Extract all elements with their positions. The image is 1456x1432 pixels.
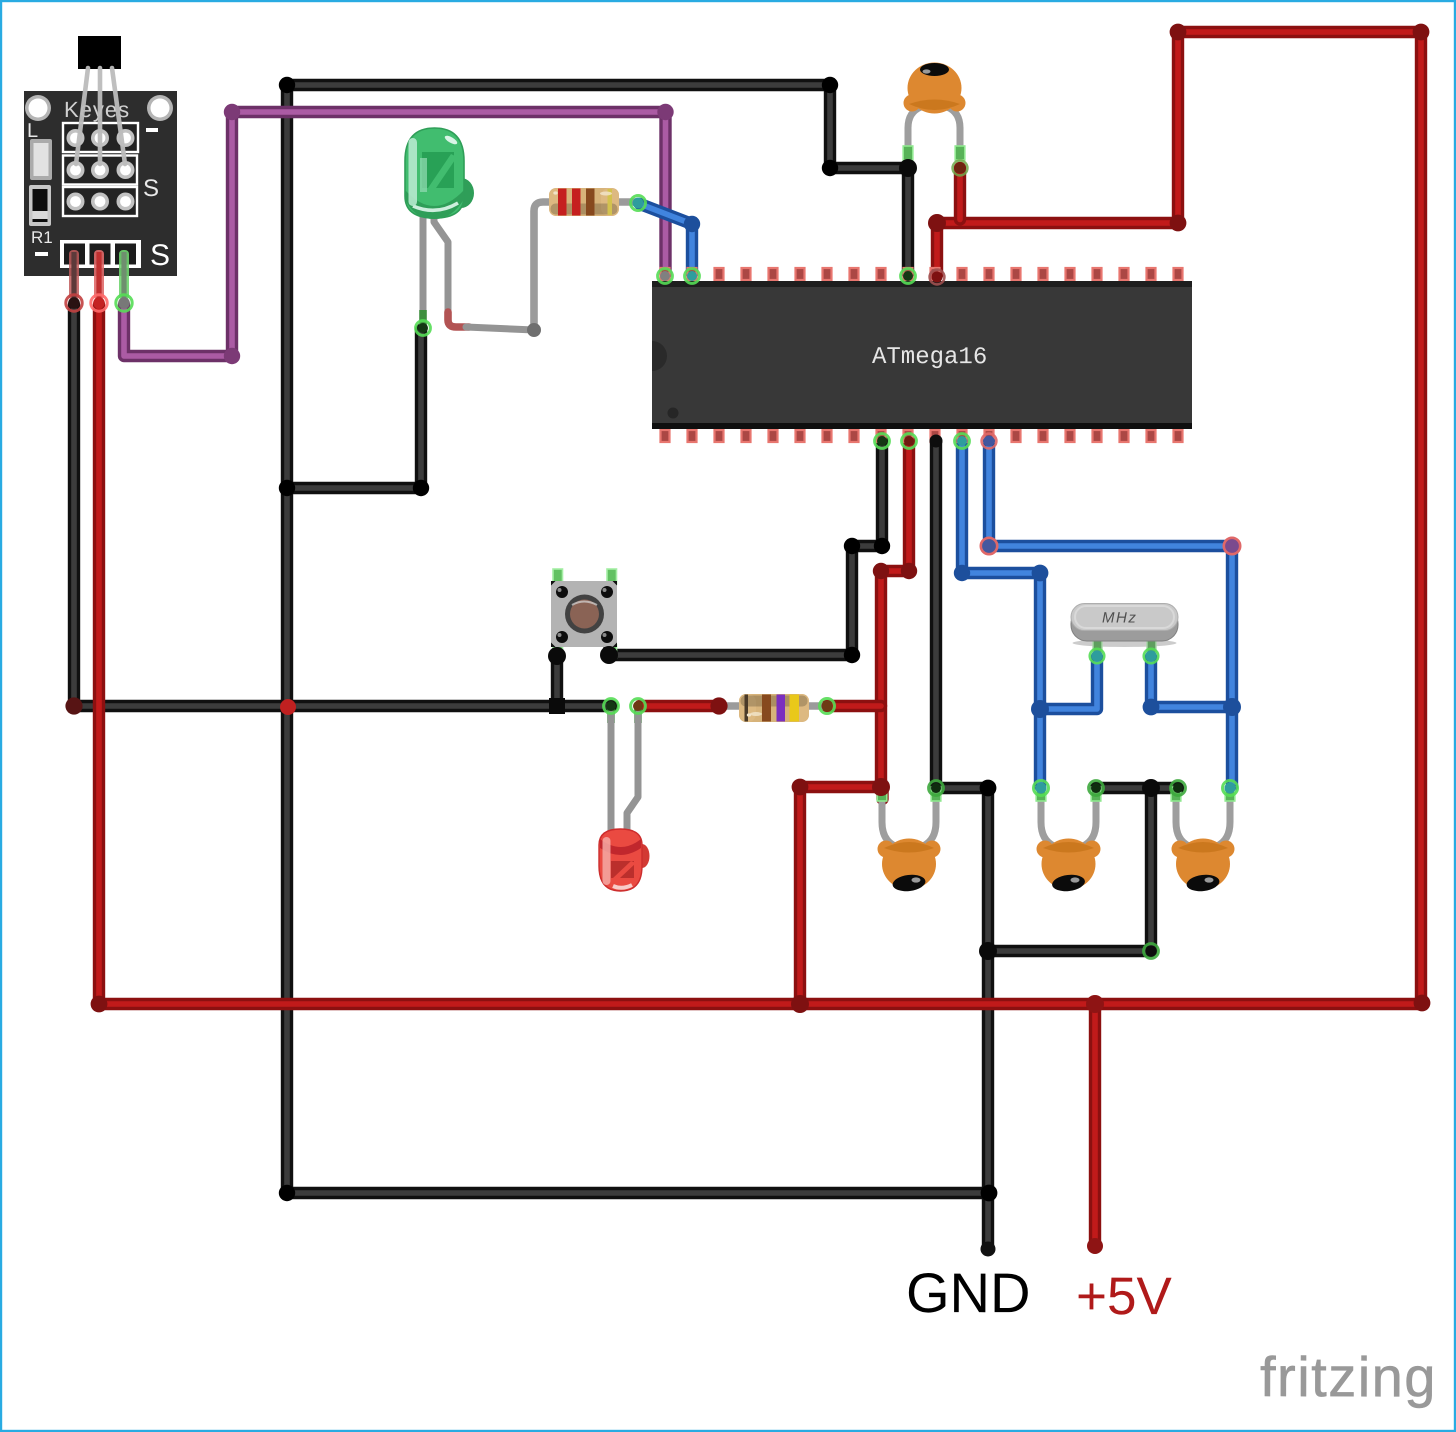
blue junction (1232,707) (1223, 698, 1241, 716)
connector red LED anode (631, 699, 646, 714)
button bottom pins (553, 645, 563, 658)
black endpoint button left pin (548, 647, 566, 665)
connector keyes minus pin (66, 295, 82, 311)
capacitor C2 legs (882, 798, 936, 846)
wire black IC(GND pin) jog to push button (609, 441, 882, 655)
blue bendpoint (692,224) (684, 216, 700, 232)
blue junction (1040,709) (1031, 700, 1049, 718)
red LED D2 legs (607, 709, 642, 833)
wire black bridge down-around to vertical (988, 788, 1151, 951)
wire red resistor R2 right segment (827, 700, 881, 712)
black bendpoint (852,546) (844, 538, 860, 554)
black bendpoint (421,488) (413, 480, 429, 496)
connector green LED cathode (416, 321, 431, 336)
header row 2 (63, 156, 137, 185)
capacitor C4 body (1172, 839, 1235, 893)
IC body (652, 281, 1192, 429)
IC pin stubs top (661, 268, 1183, 280)
capacitor C4 legs (1176, 798, 1230, 846)
KEYES-MODULE (24, 36, 177, 300)
WIRES-LAYER (74, 32, 1422, 1249)
wire red +5V top loop (937, 32, 1421, 1002)
label minus left (35, 252, 48, 256)
black bendpoint (287,488) (279, 480, 295, 496)
black junction top cap left leg (899, 159, 917, 177)
keyes PCB board (24, 91, 177, 276)
resistor R1 220ohm bent lead (534, 202, 636, 330)
black bendpoint (830,85) (822, 77, 838, 93)
capacitor C1 lead sleeves (903, 146, 965, 160)
connector cap C4 left leg black (1171, 781, 1186, 796)
module pin leg S (signal) (119, 250, 129, 300)
blue bendpoint (1232,546) (1224, 538, 1240, 554)
header row 1 (63, 123, 138, 152)
dark red bendpoint keyes gnd corner (65, 697, 82, 714)
svg-text:S: S (143, 175, 159, 202)
wire red +5V bottom bus (98, 998, 1422, 1010)
connector IC bottom blue pin (955, 434, 970, 449)
gray junction LED-resistor leads (527, 323, 541, 337)
black junction (988,951) (979, 942, 997, 960)
wire blue XTAL1 net (962, 441, 1040, 786)
svg-text:ATmega16: ATmega16 (872, 344, 987, 371)
red junction (937,223) (928, 214, 946, 232)
purple bendpoint (232,356) (224, 348, 240, 364)
wire black from top cap junction down to IC pin (902, 168, 914, 274)
IR receiver U-IR black head (78, 36, 121, 69)
connector cap C2 right leg black (929, 781, 944, 796)
red bendpoint (909,571) (901, 563, 917, 579)
wire black rung green LED cathode (287, 330, 421, 488)
blue bendpoint (1040,573) (1032, 565, 1049, 582)
red junction resistor R2 left (710, 697, 727, 714)
green LED D1 legs (419, 208, 534, 330)
red crossing dot on gnd rail (280, 699, 296, 715)
capacitor C3 legs (1041, 798, 1096, 846)
svg-text:MHz: MHz (1102, 610, 1137, 627)
red bendpoint (99,1004) (91, 996, 108, 1013)
purple bendpoint (669,112) (657, 104, 673, 120)
blue bendpoint (1151,707) (1143, 699, 1160, 716)
connector resistor R1 right to blue (631, 196, 646, 211)
green LED anode red elbow (448, 312, 469, 327)
connector keyes plus pin (91, 295, 107, 311)
wire black IC pin to bottom cap1 right leg (930, 441, 942, 786)
wire red +5V terminal stub (1089, 1004, 1101, 1246)
svg-text:R1: R1 (31, 228, 53, 247)
svg-text:L: L (27, 120, 38, 142)
connector crystal right pin (1144, 649, 1158, 663)
red endpoint +5V terminal (1087, 1238, 1103, 1254)
blue bendpoint (962,573) (954, 565, 970, 581)
red bendpoint (881,571) (873, 563, 889, 579)
wire black top rail (GND) from left vertical to top capacitor (287, 85, 905, 168)
green LED D1 bulb (405, 128, 474, 219)
resistor R2 470ohm leads (724, 702, 824, 710)
connector IC pin top red (930, 270, 945, 285)
red LED D2 bulb (599, 829, 650, 891)
wire red elbow to bottom cap1 left leg (881, 787, 883, 799)
black junction button pin to rail (549, 698, 565, 714)
button body (551, 581, 617, 647)
connector IC bottom black pin (875, 434, 890, 449)
svg-text:+5V: +5V (1076, 1267, 1173, 1326)
capacitor C1 body (904, 63, 966, 114)
button corner contacts (556, 586, 568, 598)
black bendpoint (882,546) (874, 538, 890, 554)
black endpoint GND terminal (981, 1242, 996, 1257)
capacitor C3 body (1037, 839, 1101, 893)
capacitor C1 22pF top legs (908, 107, 960, 152)
module pin leg middle (+ red wire) (94, 250, 104, 300)
capacitor C2 lead sleeves (877, 787, 941, 801)
button top pins (553, 569, 563, 584)
connector black bend (1151,951) (1144, 944, 1159, 959)
connector IC pin2 blue (685, 269, 700, 284)
button plunger (565, 595, 604, 634)
connector cap C3 left leg blue end (1034, 781, 1049, 796)
mounting hole right (147, 95, 173, 121)
label minus right (146, 128, 158, 132)
IR receiver legs (76, 68, 125, 164)
wire blue XTAL1 branch to crystal left pin (1040, 657, 1097, 709)
wire red IC VCC pin down mid rail (800, 441, 909, 1001)
connector IC pin1 purple (658, 269, 673, 284)
green LED cathode sleeve (419, 310, 427, 326)
red bendpoint (1422,1003) (1414, 995, 1431, 1012)
wire red resistor R2 left segment (640, 700, 719, 712)
wire black button left pin to GND rail (551, 652, 563, 706)
svg-text:fritzing: fritzing (1260, 1345, 1437, 1408)
black bendpoint (287,1193) (279, 1185, 295, 1201)
wire black long left vertical GND down to bottom rail (287, 85, 989, 1193)
connector IC bottom red pin (902, 434, 917, 449)
capacitor C2 body (878, 839, 941, 893)
wire black caps2-3 bridge (1096, 782, 1178, 794)
blue bendpoint pink ring (989,546) (981, 538, 997, 554)
IC pin1 mark (668, 408, 679, 419)
purple bendpoint (232,112) (224, 104, 240, 120)
header row 3 (63, 187, 137, 216)
wire blue XTAL2 net (989, 441, 1232, 786)
connector keyes S pin (116, 295, 132, 311)
mounting hole left (25, 95, 51, 121)
red bendpoint (800,787) (792, 779, 809, 796)
connector red LED cathode (604, 699, 619, 714)
black bendpoint (852,655) (844, 647, 860, 663)
IC pin pads top (660, 276, 1184, 283)
wire red from Keyes + pin down to +5V bus (93, 305, 105, 1001)
connector cap C3 right leg black (1089, 781, 1104, 796)
wire red top capacitor branch (954, 168, 966, 220)
black junction caps bridge tee (1142, 779, 1160, 797)
wire purple from Keyes S to IC pin 1 (124, 112, 666, 356)
wire blue resistor R1 to IC pin 2 (640, 204, 692, 274)
push button S1 (551, 569, 617, 658)
gray link elbow to resistor lead (466, 327, 534, 330)
module pin leg minus (black wire) (69, 250, 79, 300)
wire blue XTAL2 branch to crystal right pin (1151, 657, 1232, 707)
IC pin pads bottom (660, 427, 1184, 434)
connector top cap right leg red (953, 161, 968, 176)
resistor R1 body (549, 188, 619, 216)
crystal X1 (1071, 604, 1178, 655)
svg-text:S: S (150, 239, 170, 272)
resistor R2 body (739, 694, 809, 722)
IC notch (652, 341, 667, 371)
bottom pad strip (60, 240, 141, 268)
wire black from Keyes minus pin down and right to red LED (74, 305, 612, 706)
connector crystal left pin (1090, 649, 1104, 663)
LED component on module (30, 139, 52, 180)
svg-text:GND: GND (906, 1261, 1031, 1324)
black bendpoint (988,788) (980, 780, 997, 797)
black junction (989,1193) (981, 1185, 998, 1202)
red junction (881,787) (872, 778, 890, 796)
red junction (1095,1004) (1086, 995, 1104, 1013)
wire black cap1 right leg to long bottom vertical (936, 788, 988, 1249)
black bendpoint (287,85) (279, 77, 295, 93)
connector IC bottom plain black pin (930, 435, 943, 448)
R1 component on module (29, 185, 51, 226)
black bendpoint (609,655) (600, 646, 618, 664)
IC pin stubs bottom (661, 430, 1183, 442)
black bendpoint (830,168) (822, 160, 838, 176)
red bendpoint (1421,32) (1413, 24, 1430, 41)
capacitor C4 lead sleeves (1171, 787, 1235, 801)
capacitor C3 lead sleeves (1036, 787, 1101, 801)
connector resistor R2 right (820, 699, 835, 714)
red junction (800,1004) (791, 995, 809, 1013)
connector IC pin top black (901, 269, 916, 284)
resistor R1 right lead (614, 198, 636, 206)
IC U1 ATmega16 (652, 268, 1192, 442)
red bendpoint (1178,223) (1170, 215, 1187, 232)
connector IC bottom blue pin 2 (982, 434, 997, 449)
connector cap C4 right leg blue end (1223, 781, 1238, 796)
red bendpoint (1178,32) (1170, 24, 1187, 41)
